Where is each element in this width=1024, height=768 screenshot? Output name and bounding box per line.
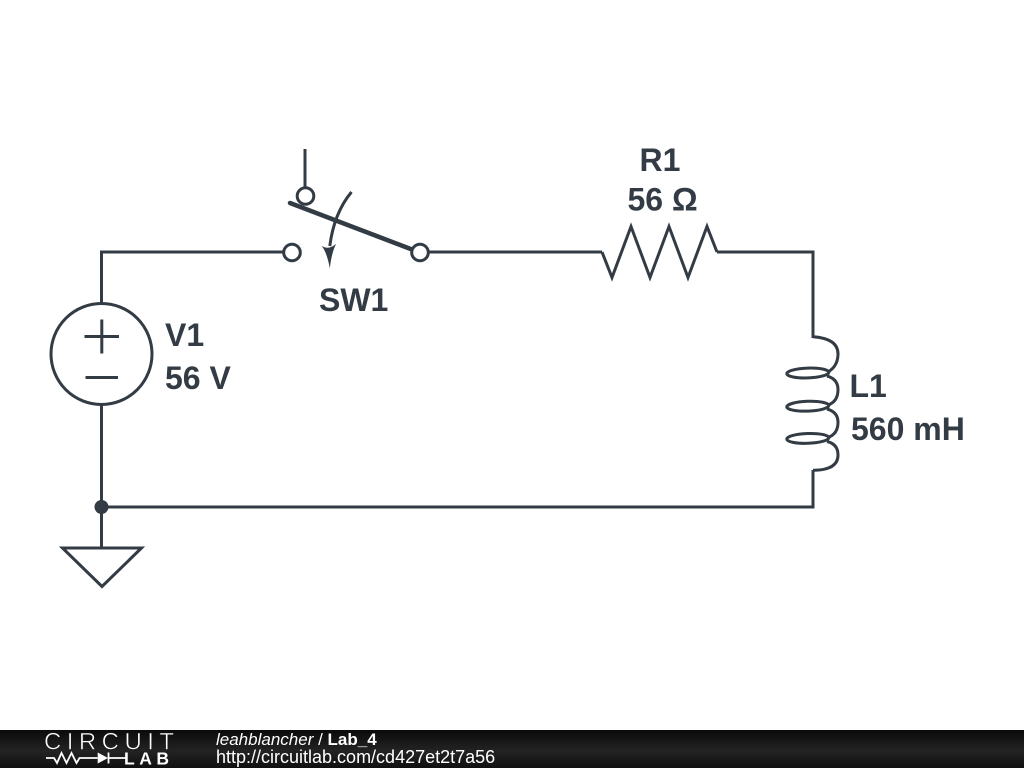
svg-text:L1: L1	[850, 368, 887, 404]
svg-text:56 Ω: 56 Ω	[628, 182, 698, 218]
svg-text:LAB: LAB	[124, 749, 173, 768]
svg-text:SW1: SW1	[319, 282, 388, 318]
svg-text:R1: R1	[640, 142, 681, 178]
svg-text:560 mH: 560 mH	[851, 411, 965, 447]
svg-text:V1: V1	[165, 317, 204, 353]
svg-text:http://circuitlab.com/cd427et2: http://circuitlab.com/cd427et2t7a56	[216, 747, 495, 767]
svg-text:56 V: 56 V	[165, 360, 231, 396]
